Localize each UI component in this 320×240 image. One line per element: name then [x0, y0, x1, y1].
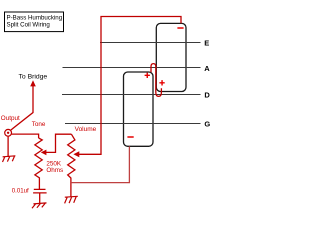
string line D [62, 94, 201, 96]
volume wiper arrowhead [73, 151, 79, 157]
pickup P1 (E/A coil) [156, 23, 186, 91]
string line E [100, 42, 201, 44]
ground (jack) [3, 156, 16, 162]
wire jack to tone pot top [12, 134, 39, 138]
svg-text:A: A [204, 64, 210, 73]
pickup P2 (D/G coil) [124, 72, 154, 146]
svg-text:Volume: Volume [75, 126, 97, 133]
svg-text:P-Bass Humbucking: P-Bass Humbucking [7, 14, 63, 21]
svg-text:E: E [204, 38, 209, 47]
wire P1 minus to volume wiper (hot) [79, 17, 181, 155]
string line A [63, 67, 201, 69]
svg-text:D: D [204, 91, 210, 100]
svg-text:To Bridge: To Bridge [19, 73, 48, 80]
ground (volume) [65, 196, 78, 203]
polarity plus P1 [159, 80, 164, 85]
polarity minus P2 [127, 136, 133, 138]
svg-text:Ohms: Ohms [46, 167, 63, 174]
capacitor bottom lead [39, 193, 41, 203]
tone pot R1 zigzag [35, 138, 42, 189]
wire volume bottom to P2 minus [71, 146, 129, 182]
wire jack to ground [7, 136, 9, 156]
output jack ring [5, 129, 12, 136]
wire jack to bridge arrow [11, 86, 33, 131]
svg-text:0.01uf: 0.01uf [12, 188, 29, 195]
polarity minus P1 [177, 27, 183, 29]
wire P2 plus to P1 plus (series link) [151, 64, 161, 97]
svg-text:G: G [204, 119, 210, 128]
to-bridge arrowhead [30, 80, 36, 86]
output jack tip [7, 132, 9, 134]
tone wiper wire to volume top [45, 134, 72, 152]
title box [5, 12, 64, 32]
tone wiper arrowhead [41, 150, 47, 156]
svg-text:Tone: Tone [32, 121, 46, 128]
ground (capacitor) [32, 203, 47, 208]
polarity plus P2 [145, 73, 150, 78]
volume pot R2 zigzag [68, 134, 75, 196]
capacitor C1 plates [33, 189, 47, 193]
string line G [65, 123, 201, 125]
svg-text:Output: Output [1, 115, 20, 122]
svg-text:Split Coil Wiring: Split Coil Wiring [7, 21, 51, 28]
